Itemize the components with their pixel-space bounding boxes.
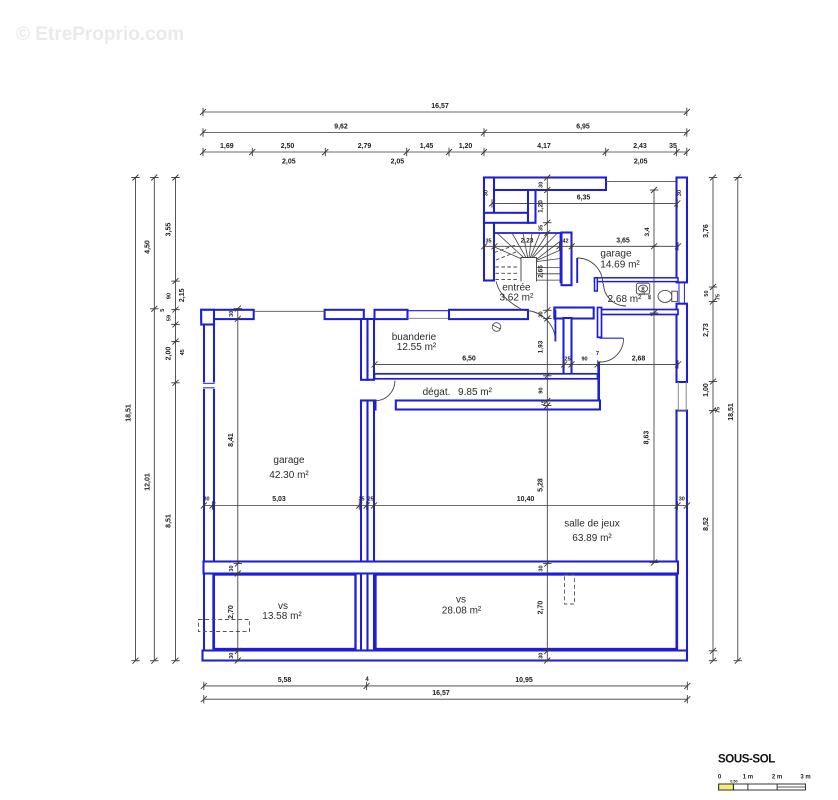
svg-text:dégat.: dégat. bbox=[423, 387, 451, 398]
svg-text:15: 15 bbox=[541, 400, 547, 406]
svg-text:90: 90 bbox=[538, 387, 544, 393]
svg-text:9.85 m²: 9.85 m² bbox=[458, 387, 493, 398]
svg-text:5,03: 5,03 bbox=[272, 496, 286, 503]
svg-text:3,76: 3,76 bbox=[703, 224, 710, 238]
svg-text:garage: garage bbox=[273, 455, 305, 466]
svg-text:2,00: 2,00 bbox=[165, 347, 172, 361]
svg-text:vs: vs bbox=[456, 595, 466, 606]
svg-text:2,70: 2,70 bbox=[228, 605, 235, 619]
svg-text:2,73: 2,73 bbox=[703, 323, 710, 337]
svg-text:4,17: 4,17 bbox=[537, 143, 551, 150]
svg-text:3,65: 3,65 bbox=[616, 237, 630, 244]
svg-text:30: 30 bbox=[484, 190, 490, 196]
svg-text:30: 30 bbox=[538, 182, 544, 188]
svg-text:2,05: 2,05 bbox=[634, 159, 648, 166]
svg-text:1,20: 1,20 bbox=[537, 200, 544, 213]
svg-text:6,95: 6,95 bbox=[576, 124, 590, 131]
svg-text:45: 45 bbox=[180, 349, 186, 355]
svg-text:7: 7 bbox=[596, 351, 599, 357]
svg-text:2,05: 2,05 bbox=[391, 159, 405, 166]
svg-text:30: 30 bbox=[679, 497, 685, 503]
svg-text:1,69: 1,69 bbox=[220, 143, 234, 150]
svg-text:18,51: 18,51 bbox=[126, 404, 133, 422]
svg-text:2,15: 2,15 bbox=[179, 288, 186, 302]
svg-text:2,05: 2,05 bbox=[282, 159, 296, 166]
svg-text:2,65: 2,65 bbox=[537, 265, 544, 278]
svg-text:garage: garage bbox=[600, 249, 632, 260]
svg-text:18,51: 18,51 bbox=[728, 403, 735, 421]
svg-text:35: 35 bbox=[669, 143, 677, 150]
svg-text:4,50: 4,50 bbox=[144, 240, 151, 254]
svg-text:90: 90 bbox=[581, 356, 587, 362]
svg-text:2 m: 2 m bbox=[772, 774, 782, 780]
svg-text:3,4: 3,4 bbox=[644, 227, 651, 236]
svg-text:30: 30 bbox=[538, 311, 544, 317]
svg-text:30: 30 bbox=[229, 311, 235, 317]
svg-text:75: 75 bbox=[716, 407, 722, 413]
svg-text:50: 50 bbox=[704, 290, 710, 296]
svg-text:30: 30 bbox=[229, 565, 235, 571]
svg-text:16,57: 16,57 bbox=[431, 103, 449, 110]
svg-text:60: 60 bbox=[647, 294, 652, 300]
svg-text:25: 25 bbox=[565, 356, 571, 362]
svg-text:8,52: 8,52 bbox=[703, 517, 710, 531]
svg-text:1,45: 1,45 bbox=[420, 143, 434, 150]
svg-text:75: 75 bbox=[716, 294, 722, 300]
svg-text:5,58: 5,58 bbox=[278, 677, 292, 684]
svg-text:2,79: 2,79 bbox=[358, 143, 372, 150]
svg-text:30: 30 bbox=[203, 497, 209, 503]
svg-text:25: 25 bbox=[358, 497, 364, 503]
svg-text:8,51: 8,51 bbox=[165, 514, 172, 528]
svg-text:12,01: 12,01 bbox=[144, 473, 151, 491]
svg-text:42: 42 bbox=[562, 238, 568, 244]
svg-text:2,23: 2,23 bbox=[521, 237, 534, 244]
svg-text:5,28: 5,28 bbox=[537, 478, 544, 492]
svg-text:salle de jeux: salle de jeux bbox=[564, 519, 620, 530]
svg-text:90: 90 bbox=[166, 293, 172, 299]
svg-text:1,93: 1,93 bbox=[537, 340, 544, 353]
svg-text:© EtreProprio.com: © EtreProprio.com bbox=[16, 24, 184, 45]
svg-text:3.62 m²: 3.62 m² bbox=[499, 293, 534, 304]
svg-text:16,57: 16,57 bbox=[432, 690, 450, 697]
svg-text:14.69 m²: 14.69 m² bbox=[600, 260, 640, 271]
svg-text:6,50: 6,50 bbox=[462, 355, 476, 362]
svg-text:8,41: 8,41 bbox=[228, 433, 235, 447]
svg-text:30: 30 bbox=[677, 190, 683, 196]
svg-text:0,50: 0,50 bbox=[730, 780, 737, 784]
svg-text:1 m: 1 m bbox=[743, 774, 753, 780]
svg-text:35: 35 bbox=[485, 238, 491, 244]
svg-text:1,00: 1,00 bbox=[703, 383, 710, 397]
svg-text:2,70: 2,70 bbox=[537, 601, 544, 615]
svg-text:59: 59 bbox=[166, 315, 172, 321]
svg-text:9,62: 9,62 bbox=[334, 124, 348, 131]
svg-text:63.89 m²: 63.89 m² bbox=[572, 533, 612, 544]
svg-text:28.08 m²: 28.08 m² bbox=[442, 606, 482, 617]
svg-text:10,95: 10,95 bbox=[515, 677, 533, 684]
svg-text:30: 30 bbox=[538, 653, 544, 659]
svg-text:1,20: 1,20 bbox=[459, 143, 473, 150]
svg-text:6,35: 6,35 bbox=[577, 194, 591, 201]
svg-text:42.30 m²: 42.30 m² bbox=[269, 470, 309, 481]
svg-text:25: 25 bbox=[368, 497, 374, 503]
svg-text:12.55 m²: 12.55 m² bbox=[397, 342, 437, 353]
svg-text:2,50: 2,50 bbox=[281, 143, 295, 150]
svg-text:13.58 m²: 13.58 m² bbox=[262, 611, 302, 622]
svg-text:SOUS-SOL: SOUS-SOL bbox=[718, 754, 775, 766]
svg-text:30: 30 bbox=[538, 565, 544, 571]
svg-text:3,55: 3,55 bbox=[165, 223, 172, 237]
svg-text:2,43: 2,43 bbox=[633, 143, 647, 150]
svg-text:2.68 m²: 2.68 m² bbox=[608, 294, 643, 305]
svg-text:30: 30 bbox=[229, 653, 235, 659]
svg-text:10,40: 10,40 bbox=[517, 496, 535, 503]
svg-text:3 m: 3 m bbox=[800, 774, 810, 780]
svg-text:8,63: 8,63 bbox=[644, 431, 651, 445]
svg-text:5: 5 bbox=[160, 309, 166, 312]
svg-text:35: 35 bbox=[538, 225, 544, 231]
svg-text:2,68: 2,68 bbox=[632, 355, 646, 362]
